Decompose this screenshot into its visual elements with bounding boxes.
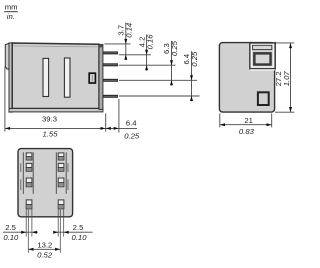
svg-text:21: 21 (244, 116, 253, 125)
svg-text:0.83: 0.83 (239, 127, 255, 136)
svg-text:0.25: 0.25 (170, 40, 179, 56)
svg-text:2.5: 2.5 (5, 223, 16, 232)
svg-text:0.25: 0.25 (124, 131, 140, 140)
svg-text:6.4: 6.4 (126, 119, 137, 128)
svg-text:0.52: 0.52 (37, 250, 53, 259)
svg-text:13.2: 13.2 (37, 241, 52, 250)
svg-text:0.14: 0.14 (125, 23, 134, 38)
svg-text:in.: in. (7, 12, 15, 21)
svg-text:2.5: 2.5 (73, 223, 84, 232)
svg-text:0.25: 0.25 (190, 51, 199, 67)
svg-text:0.10: 0.10 (72, 233, 88, 242)
svg-text:mm: mm (5, 2, 18, 11)
svg-text:39.3: 39.3 (42, 114, 57, 123)
svg-text:1.07: 1.07 (282, 71, 291, 87)
svg-text:1.55: 1.55 (43, 130, 59, 139)
svg-text:0.10: 0.10 (3, 233, 19, 242)
svg-text:0.16: 0.16 (145, 34, 154, 50)
